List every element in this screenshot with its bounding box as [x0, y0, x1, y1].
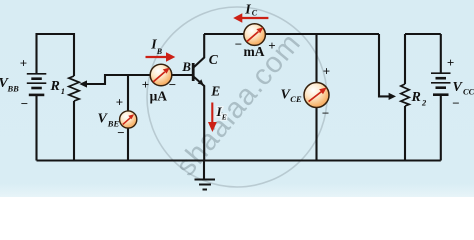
ground — [195, 180, 216, 190]
svg-text:−: − — [322, 105, 329, 120]
watermark circle — [147, 7, 327, 187]
wire: R1 bottom to bottom rail — [73, 101, 75, 161]
wire: R1 wiper to base jog — [87, 75, 151, 84]
wire: collector vertical to top rail — [194, 34, 205, 67]
svg-text:BB: BB — [7, 84, 20, 94]
svg-text:−: − — [21, 96, 28, 111]
voltmeter V_BE — [120, 111, 137, 128]
wire: R2 bottom to rail — [404, 106, 406, 161]
label I_E — [216, 104, 227, 122]
svg-text:+: + — [20, 56, 27, 71]
svg-text:−: − — [235, 37, 242, 52]
svg-text:−: − — [117, 125, 124, 140]
svg-text:−: − — [452, 96, 459, 111]
current arrow I_B — [146, 52, 176, 62]
svg-text:+: + — [268, 38, 275, 53]
label V_CE — [281, 88, 302, 105]
label I_B — [150, 38, 163, 56]
svg-text:C: C — [209, 52, 219, 67]
label R1 — [50, 79, 66, 96]
wire: V_CC top connection — [440, 34, 442, 73]
milliammeter mA — [244, 24, 266, 46]
svg-text:CE: CE — [290, 94, 302, 104]
wire: V_CC bottom to rail — [440, 95, 442, 161]
svg-text:+: + — [142, 77, 149, 92]
wire: base wire into transistor — [150, 74, 193, 76]
wire: V_CE branch vertical — [315, 34, 317, 161]
battery V_BB — [27, 74, 47, 95]
transistor emitter arrowhead — [198, 79, 204, 85]
label V_CC — [453, 80, 474, 97]
wire: rail down to R2 wiper arrow — [379, 34, 389, 96]
current arrow I_C — [233, 13, 268, 22]
voltmeter V_CE — [304, 83, 329, 108]
svg-text:mA: mA — [244, 44, 265, 59]
svg-text:B: B — [156, 47, 163, 56]
resistor R1 — [69, 76, 79, 101]
svg-text:C: C — [252, 8, 258, 17]
current arrow I_E — [208, 103, 217, 133]
wire: V_BB bottom to bottom rail — [35, 95, 37, 161]
svg-text:CC: CC — [463, 87, 474, 97]
svg-text:+: + — [116, 95, 123, 110]
wire: bottom rail — [37, 159, 441, 161]
wire: V_BE branch down from base wire — [127, 75, 129, 161]
svg-text:I: I — [244, 3, 251, 18]
wire: ground stem — [203, 161, 205, 180]
wire: top rail segment B — [405, 33, 441, 35]
label R2 — [411, 90, 428, 108]
R1 wiper arrowhead — [79, 80, 87, 87]
R2 wiper arrowhead — [389, 93, 396, 100]
wire: emitter vertical to bottom rail — [194, 77, 205, 161]
svg-text:E: E — [221, 113, 227, 122]
label I_C — [244, 3, 258, 18]
svg-text:R: R — [50, 79, 60, 94]
label V_BB — [0, 76, 19, 94]
ammeter uA — [150, 64, 172, 86]
svg-text:R: R — [411, 90, 421, 105]
svg-text:E: E — [210, 83, 220, 98]
resistor R2 — [401, 84, 409, 106]
svg-text:−: − — [169, 77, 176, 92]
svg-text:+: + — [447, 55, 454, 70]
transistor Q1 base bar — [192, 63, 195, 81]
wire: R2 top connection — [404, 34, 406, 84]
battery V_CC — [431, 73, 451, 95]
svg-text:+: + — [323, 64, 330, 79]
label V_BE — [98, 111, 120, 128]
svg-text:μA: μA — [150, 88, 168, 103]
wire: top rail segment A — [204, 33, 379, 35]
wire: V_BB top to top-left corner — [37, 34, 75, 76]
svg-text:2: 2 — [421, 98, 427, 108]
svg-text:1: 1 — [61, 86, 65, 96]
svg-text:B: B — [181, 59, 191, 74]
